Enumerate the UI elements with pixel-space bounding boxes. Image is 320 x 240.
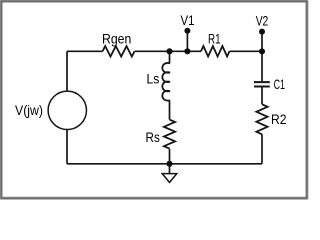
svg-text:V2: V2 (256, 12, 269, 28)
wire top rail middle (135, 50, 202, 52)
wire V1 stub (186, 31, 188, 52)
ground (162, 174, 177, 183)
wire top rail right (230, 50, 263, 52)
wire bottom rail (67, 163, 262, 165)
wire ground stub (169, 164, 171, 174)
resistor Rs (164, 120, 175, 149)
svg-text:Ls: Ls (147, 70, 160, 86)
wire left branch upper (66, 51, 68, 91)
wire V2 stub (261, 32, 263, 52)
voltage source V(jw) (48, 91, 86, 129)
border frame (1, 1, 307, 198)
resistor R2 (256, 104, 267, 134)
wire top rail left (67, 50, 103, 52)
svg-text:V(jw): V(jw) (15, 102, 43, 118)
node junction dot middle-top (166, 48, 172, 54)
node junction dot ground (166, 161, 172, 167)
node V1 terminal dot (184, 28, 190, 34)
wire R2 to bottom rail (261, 134, 263, 164)
svg-text:R1: R1 (208, 31, 221, 47)
wire middle stub top (169, 51, 171, 63)
node junction dot V2 on rail (259, 48, 265, 54)
svg-text:C1: C1 (274, 76, 286, 92)
resistor Rgen (103, 46, 135, 56)
resistor R1 (201, 46, 230, 56)
wire C1 to R2 (261, 87, 263, 104)
wire V2 to C1 (261, 51, 263, 81)
svg-text:V1: V1 (181, 12, 195, 28)
svg-text:Rs: Rs (146, 129, 160, 145)
svg-text:R2: R2 (271, 111, 287, 127)
wire left branch lower (66, 130, 68, 164)
node V2 terminal dot (259, 29, 265, 35)
wire middle between Ls and Rs (169, 100, 171, 119)
capacitor C1 (254, 82, 270, 86)
node junction dot V1 on rail (184, 48, 190, 54)
inductor Ls (162, 63, 170, 101)
svg-text:Rgen: Rgen (102, 30, 131, 46)
wire middle below Rs (169, 149, 171, 164)
